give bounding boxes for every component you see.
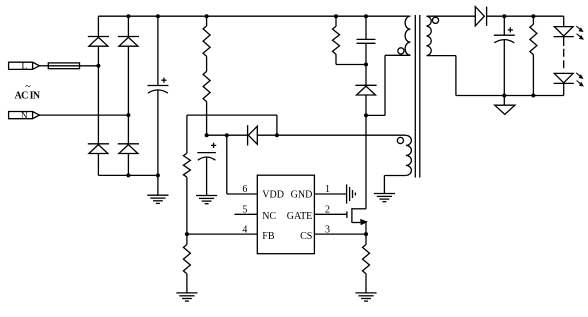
wire bridge column A upper	[97, 16, 99, 36]
wire source to CS node	[365, 223, 367, 235]
diode D3	[88, 143, 109, 145]
svg-text:FB: FB	[262, 231, 275, 242]
LED D8	[554, 27, 573, 36]
wire NC pin 5 stub	[235, 213, 258, 215]
capacitor C3 snubber	[357, 38, 376, 40]
diode D7 output rectifier	[475, 7, 484, 26]
wire bulk cap lower	[157, 90, 159, 175]
resistor R7 load	[530, 24, 537, 54]
node junction output cap bottom	[502, 94, 506, 98]
node junction L / bridge column A	[96, 64, 100, 68]
transistor Q1 source lead	[352, 222, 366, 224]
wire bridge column A middle	[97, 46, 99, 144]
node junction top rail / snubber resistor	[334, 14, 338, 18]
wire output cap lower	[503, 40, 505, 96]
node drain junction	[364, 113, 368, 117]
ground output	[495, 105, 515, 114]
wire FB sense vertical upper	[186, 115, 188, 153]
resistor R4 feedback lower	[183, 245, 190, 274]
wire CS resistor leads	[365, 234, 367, 244]
node junction top rail / snubber capacitor	[364, 14, 368, 18]
diode D6 snubber clamp	[355, 84, 376, 86]
resistor R5 snubber	[333, 26, 340, 54]
transformer T1 primary winding	[405, 16, 410, 55]
wire LED2 anode	[563, 72, 565, 75]
fuse F1	[48, 63, 79, 69]
wire FB column middle	[186, 177, 188, 234]
wire L to fuse	[39, 65, 48, 67]
wire snubber diode anode	[365, 95, 367, 115]
ground bridge	[147, 194, 168, 196]
transformer T1 auxiliary phase dot	[397, 137, 403, 143]
resistor R1 startup upper	[203, 26, 210, 57]
wire VDD cap lower	[206, 157, 208, 195]
node junction top rail / bulk cap	[156, 14, 160, 18]
wire snubber cap top	[365, 16, 367, 39]
svg-text:GATE: GATE	[287, 211, 313, 222]
wire LED anode	[563, 16, 565, 26]
wire GND pin 1	[314, 193, 346, 195]
transistor Q1 drain lead	[352, 208, 366, 210]
node snubber RC junction	[364, 63, 368, 67]
wire bridge column B upper	[127, 16, 129, 36]
transistor Q1 gate bar	[346, 211, 348, 218]
node junction bridge bottom / column B	[126, 173, 130, 177]
node diode anode junction	[275, 133, 279, 137]
wire FB to pin 4	[187, 233, 257, 235]
wire LED series dashed	[563, 37, 565, 46]
wire snubber to diode	[365, 65, 367, 86]
svg-text:6: 6	[242, 184, 247, 195]
wire CS pin 3	[314, 233, 366, 235]
wire output cap upper	[503, 16, 505, 35]
wire VDD pin column	[226, 135, 228, 194]
ground FB divider	[176, 292, 197, 294]
wire FB sense horizontal	[187, 114, 277, 116]
svg-text:4: 4	[242, 224, 247, 235]
transistor Q1 channel bar	[351, 208, 353, 223]
wire bridge column A lower	[97, 154, 99, 176]
transformer T1 core	[414, 15, 416, 178]
wire LED cathode	[563, 83, 565, 95]
LED D9	[554, 73, 573, 82]
diode D2	[118, 36, 139, 38]
resistor R2 startup lower	[203, 71, 210, 101]
node FB	[185, 232, 189, 236]
wire VDD rail	[207, 134, 248, 136]
wire startup resistor bottom	[206, 102, 208, 136]
capacitor C1 bulk electrolytic	[161, 79, 166, 81]
op-amp U1 controller box	[257, 175, 314, 254]
wire output ground stub	[503, 96, 505, 106]
diode D1	[88, 36, 109, 38]
wire snubber R bottom	[335, 54, 337, 64]
node junction VDD cap / VDD pin column	[225, 133, 229, 137]
node junction top rail / startup resistor	[205, 14, 209, 18]
wire primary bottom jog	[366, 114, 385, 116]
node CS junction	[364, 232, 368, 236]
terminal N	[9, 112, 40, 119]
svg-text:NC: NC	[262, 211, 276, 222]
wire GATE pin 2	[314, 213, 347, 215]
svg-text:CS: CS	[300, 231, 312, 242]
node junction bridge bottom / bulk cap	[156, 173, 160, 177]
node junction N / bridge column B	[126, 113, 130, 117]
terminal L	[9, 62, 40, 69]
node junction top rail / bridge column B	[126, 14, 130, 18]
wire startup resistor top	[206, 16, 208, 26]
svg-text:GND: GND	[291, 190, 313, 201]
wire bridge bottom rail	[98, 174, 157, 176]
svg-text:AC IN: AC IN	[15, 91, 41, 102]
wire secondary bottom	[427, 55, 456, 57]
wire bulk cap upper	[157, 16, 159, 85]
wire secondary top	[427, 15, 476, 17]
wire FB resistor lower	[186, 234, 188, 244]
svg-text:VDD: VDD	[262, 190, 284, 201]
wire N to bridge	[39, 114, 128, 116]
wire fuse to bridge	[80, 65, 99, 67]
node junction output cap	[502, 14, 506, 18]
transformer T1 auxiliary winding	[406, 135, 412, 175]
wire VDD pin 6	[227, 193, 257, 195]
diode D5 VDD rectifier	[247, 125, 249, 145]
wire snubber R top	[335, 16, 337, 26]
resistor R6 current sense	[363, 245, 370, 274]
wire bridge column B lower	[127, 154, 129, 176]
ground IC pin 1	[346, 184, 348, 203]
wire bridge column B middle	[127, 46, 129, 144]
node junction load resistor bottom	[531, 94, 535, 98]
svg-text:L: L	[21, 62, 27, 72]
wire between startup resistors	[206, 56, 208, 71]
wire diode anode to aux	[257, 134, 277, 136]
capacitor C2 VDD electrolytic	[211, 144, 216, 146]
node junction load resistor	[531, 14, 535, 18]
wire aux to diode node	[276, 115, 278, 135]
capacitor C4 output electrolytic	[508, 29, 513, 31]
wire load resistor bottom	[532, 55, 534, 96]
wire bulk cap ground stub	[157, 175, 159, 195]
wire output bottom rail	[456, 95, 564, 97]
wire drain column	[365, 115, 367, 208]
diode D4	[118, 143, 139, 145]
transformer T1 secondary winding	[427, 16, 432, 55]
resistor R3 feedback upper	[183, 153, 190, 177]
transformer T1 primary phase dot	[398, 48, 404, 54]
wire top positive rail	[98, 15, 409, 17]
node junction startup / VDD cap	[205, 133, 209, 137]
wire load resistor top	[532, 16, 534, 24]
ground VDD cap	[196, 195, 217, 197]
svg-text:N: N	[21, 111, 28, 121]
ground auxiliary	[374, 193, 395, 195]
ground CS resistor	[355, 292, 376, 294]
transformer T1 secondary phase dot	[432, 17, 438, 23]
wire auxiliary bottom	[384, 175, 406, 177]
wire output rail	[487, 15, 564, 17]
wire snubber cap bottom	[365, 43, 367, 64]
